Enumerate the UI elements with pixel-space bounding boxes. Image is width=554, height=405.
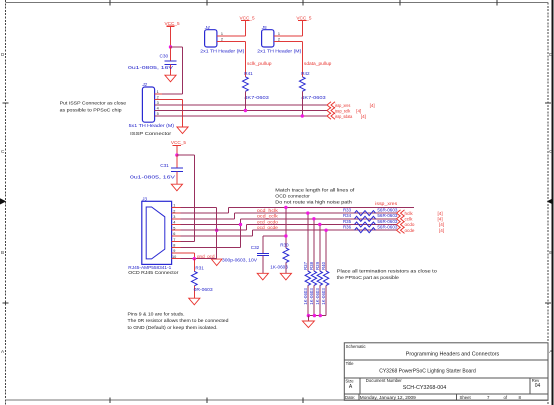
svg-text:sclk_pullup: sclk_pullup bbox=[247, 61, 272, 66]
svg-text:2: 2 bbox=[221, 38, 223, 42]
svg-text:1K-0603: 1K-0603 bbox=[270, 265, 288, 270]
wire termination gnd bus bbox=[308, 315, 326, 317]
svg-text:300p-0603, 10V: 300p-0603, 10V bbox=[222, 258, 258, 263]
node pin8 riser junction bbox=[239, 223, 242, 226]
wire row ocd_ocde bbox=[253, 229, 397, 231]
resistor R37 1K-0603 (termination) bbox=[303, 213, 311, 316]
ground (termination) bbox=[302, 321, 314, 328]
svg-text:Place all termination resistor: Place all termination resistors as close… bbox=[337, 269, 437, 274]
power symbol VCC_5 (C30 node) bbox=[165, 21, 181, 47]
ground (OCD gnd, below V2) bbox=[211, 259, 222, 265]
wire J3 pin6 jog bbox=[181, 230, 253, 236]
svg-text:B: B bbox=[1, 250, 4, 255]
svg-text:R38: R38 bbox=[309, 261, 314, 270]
resistor R34 56R-0603 bbox=[343, 213, 398, 221]
svg-text:Title: Title bbox=[346, 361, 355, 366]
svg-text:0u1-0805, 16V: 0u1-0805, 16V bbox=[128, 65, 174, 70]
svg-text:ocd_ocdo: ocd_ocdo bbox=[257, 219, 279, 224]
svg-text:SCH-CY3268-004: SCH-CY3268-004 bbox=[403, 385, 447, 391]
resistor R30 1K-0603 bbox=[270, 242, 289, 273]
svg-text:issp_sdata: issp_sdata bbox=[335, 114, 353, 119]
svg-text:A: A bbox=[1, 349, 5, 354]
wire R30 riser bbox=[285, 207, 287, 248]
svg-text:R37: R37 bbox=[303, 261, 308, 270]
svg-text:sdata_pullup: sdata_pullup bbox=[304, 61, 332, 66]
svg-text:issp_sclk: issp_sclk bbox=[335, 108, 351, 113]
wire row ocd_hclk bbox=[234, 212, 396, 214]
wire gnd_ocd (pin10) bbox=[181, 258, 217, 260]
wire R42 to issp_sdata bbox=[301, 91, 303, 116]
svg-text:Match trace length for all lin: Match trace length for all lines of bbox=[275, 188, 355, 193]
wire J3 pin1 to gnd drop V2 bbox=[181, 206, 217, 208]
svg-text:OCD connector: OCD connector bbox=[275, 194, 310, 199]
wire J4 pin1 to VCC bbox=[217, 35, 246, 37]
svg-text:[4]: [4] bbox=[356, 108, 361, 113]
wire gnd bus drop bbox=[307, 316, 309, 321]
port issp_sclk bbox=[327, 107, 361, 113]
wire issp_xres bbox=[155, 104, 327, 106]
svg-text:[4]: [4] bbox=[439, 222, 444, 227]
connector J4 2x1 TH Header bbox=[204, 25, 223, 47]
svg-text:Size: Size bbox=[345, 379, 354, 384]
svg-text:7: 7 bbox=[487, 395, 490, 400]
svg-text:Pins 9 & 10 are for studs.: Pins 9 & 10 are for studs. bbox=[128, 312, 185, 317]
capacitor C31 bbox=[130, 155, 183, 184]
svg-text:R42: R42 bbox=[301, 71, 310, 76]
svg-text:The 0R resistor allows them to: The 0R resistor allows them to be connec… bbox=[128, 318, 229, 323]
resistor R31 0R-0603 bbox=[191, 259, 213, 299]
ground (below C30) bbox=[165, 75, 176, 82]
svg-text:R36: R36 bbox=[343, 225, 352, 230]
svg-text:[4]: [4] bbox=[439, 228, 444, 233]
svg-text:VCC_5: VCC_5 bbox=[171, 140, 187, 145]
svg-text:issp_xres: issp_xres bbox=[375, 201, 398, 206]
port cclk bbox=[397, 216, 443, 222]
wire J3 pin5 jog bbox=[181, 225, 247, 231]
ground (below R30) bbox=[280, 273, 291, 280]
resistor R36 56R-0603 bbox=[343, 225, 398, 233]
svg-text:4K7-0603: 4K7-0603 bbox=[301, 95, 326, 100]
port ocde bbox=[397, 227, 445, 233]
svg-text:R33: R33 bbox=[343, 207, 352, 212]
connector J3 RJ45 bbox=[141, 197, 176, 265]
svg-text:Document Number: Document Number bbox=[366, 378, 403, 383]
svg-text:VCC_5: VCC_5 bbox=[240, 15, 256, 20]
svg-text:[4]: [4] bbox=[370, 103, 375, 108]
svg-text:the PPSoC part as possible: the PPSoC part as possible bbox=[337, 275, 399, 280]
svg-text:Date:: Date: bbox=[345, 395, 355, 400]
svg-text:[4]: [4] bbox=[438, 211, 443, 216]
wire VCC to J3 pin7 (V1 bottom) bbox=[181, 241, 195, 243]
port hclk bbox=[397, 210, 443, 216]
resistor R41 4K7-0603 bbox=[242, 71, 269, 100]
svg-text:Monday, January 12, 2009: Monday, January 12, 2009 bbox=[360, 395, 417, 400]
svg-text:2: 2 bbox=[278, 38, 280, 42]
svg-text:gnd_ocd: gnd_ocd bbox=[197, 254, 215, 259]
wire row ocd_cclk bbox=[241, 218, 397, 220]
svg-text:to GND (Default) or keep them: to GND (Default) or keep them isolated. bbox=[128, 325, 218, 330]
svg-text:ISSP Connector: ISSP Connector bbox=[130, 131, 172, 136]
wire J3 pin4 jog bbox=[181, 219, 241, 225]
svg-text:C31: C31 bbox=[160, 163, 169, 168]
svg-text:Put ISSP Connector as close: Put ISSP Connector as close bbox=[60, 101, 127, 106]
resistor R33 56R-0603 bbox=[343, 207, 398, 215]
svg-text:[4]: [4] bbox=[361, 114, 366, 119]
node VCC_5/C30 junction bbox=[169, 45, 172, 48]
wire row ocd_ocdo bbox=[247, 224, 397, 226]
resistor R40 1K-0603 (termination) bbox=[321, 230, 329, 315]
svg-text:Programming Headers and Connec: Programming Headers and Connectors bbox=[406, 351, 500, 357]
wire row issp_xres bbox=[228, 206, 414, 208]
svg-text:56R-0603: 56R-0603 bbox=[377, 225, 398, 230]
svg-text:ocd_ocde: ocd_ocde bbox=[257, 225, 279, 230]
resistor R39 1K-0603 (termination) bbox=[315, 225, 323, 316]
svg-text:OCD RJ45 Connector: OCD RJ45 Connector bbox=[128, 270, 179, 275]
svg-text:56R-0603: 56R-0603 bbox=[377, 207, 398, 212]
node VCC_5/C31 junction bbox=[175, 153, 178, 156]
svg-text:Sheet: Sheet bbox=[460, 395, 472, 400]
wire VCC node to J2 pin1 drop bbox=[171, 47, 183, 94]
svg-text:as possible to PPSoC chip: as possible to PPSoC chip bbox=[60, 107, 122, 112]
wire J3 pin2 jog bbox=[181, 207, 229, 213]
svg-text:1K-0603: 1K-0603 bbox=[321, 288, 326, 305]
ground (below R31) bbox=[189, 298, 200, 305]
port issp_sdata bbox=[327, 113, 366, 119]
wire VCC node to J3 pin7 drop (V1) bbox=[177, 155, 194, 242]
svg-text:of: of bbox=[504, 395, 508, 400]
svg-text:1: 1 bbox=[221, 32, 223, 36]
wire issp_sclk bbox=[155, 110, 327, 112]
wire J5 pin1 to VCC bbox=[274, 35, 302, 37]
note: Put ISSP Connector as close bbox=[60, 101, 127, 113]
svg-text:0u1-0805, 16V: 0u1-0805, 16V bbox=[130, 175, 176, 180]
wire R41 to issp_sclk bbox=[244, 91, 246, 110]
svg-text:04: 04 bbox=[535, 383, 541, 389]
svg-text:R30: R30 bbox=[280, 242, 289, 247]
wire J3 pin8 riser bbox=[181, 225, 241, 248]
svg-text:8: 8 bbox=[519, 395, 522, 400]
wire J2 pin2 to ground bbox=[155, 99, 183, 127]
wire J2 pin1 to VCC node bbox=[155, 93, 183, 95]
ground (below J2 pin2) bbox=[177, 127, 188, 134]
title block bbox=[344, 343, 548, 401]
connector J5 2x1 TH Header bbox=[261, 25, 280, 47]
svg-text:[4]: [4] bbox=[438, 217, 443, 222]
svg-text:A: A bbox=[349, 384, 353, 390]
resistor R42 4K7-0603 bbox=[299, 71, 326, 100]
node R41/issp_sclk junction bbox=[244, 109, 247, 112]
svg-text:CY3268 PowerPSoC Lighting Star: CY3268 PowerPSoC Lighting Starter Board bbox=[379, 369, 476, 375]
node gnd_ocd junction bbox=[193, 257, 196, 260]
svg-text:R40: R40 bbox=[321, 261, 326, 270]
svg-text:C30: C30 bbox=[160, 54, 169, 59]
svg-text:1K-0603: 1K-0603 bbox=[303, 288, 308, 305]
wire J3 pin3 jog bbox=[181, 213, 235, 219]
node R37 tap junction bbox=[306, 211, 309, 214]
node gnd bus junctions bbox=[307, 314, 322, 317]
node R39 tap junction bbox=[318, 223, 321, 226]
wire J5 pin2 to R42 bbox=[274, 42, 302, 77]
power symbol VCC_5 (J5) bbox=[296, 15, 312, 36]
svg-text:ocde: ocde bbox=[405, 228, 415, 233]
ground (below C31) bbox=[171, 184, 182, 191]
svg-text:cclk: cclk bbox=[405, 217, 414, 222]
svg-text:56R-0603: 56R-0603 bbox=[377, 219, 398, 224]
resistor R38 1K-0603 (termination) bbox=[309, 219, 317, 316]
power symbol VCC_5 (J4) bbox=[240, 15, 256, 36]
node V2/pin5 junction bbox=[215, 229, 218, 232]
note: pins 9 and 10 bbox=[128, 312, 229, 330]
capacitor C30 bbox=[128, 47, 177, 75]
svg-text:2x1 TH Header (M): 2x1 TH Header (M) bbox=[200, 48, 245, 53]
svg-text:VCC_5: VCC_5 bbox=[296, 15, 312, 20]
note: place termination resistors bbox=[337, 269, 437, 281]
svg-text:1K-0603: 1K-0603 bbox=[309, 288, 314, 305]
svg-text:R39: R39 bbox=[315, 261, 320, 270]
svg-text:C: C bbox=[1, 149, 5, 154]
svg-text:5x1 TH Header (M): 5x1 TH Header (M) bbox=[129, 123, 175, 128]
svg-text:VCC_5: VCC_5 bbox=[165, 21, 181, 26]
svg-text:1K-0603: 1K-0603 bbox=[315, 288, 320, 305]
svg-text:ocd_hclk: ocd_hclk bbox=[257, 208, 279, 213]
wire J4 pin2 to R41 bbox=[217, 42, 246, 77]
ground (below C32) bbox=[257, 273, 268, 280]
node C32/R30 junction bbox=[284, 234, 287, 237]
svg-text:hclk: hclk bbox=[405, 211, 414, 216]
svg-text:Do not route via high noise pa: Do not route via high noise path bbox=[275, 200, 352, 205]
port ocdo bbox=[397, 221, 445, 227]
capacitor C32 300p bbox=[222, 236, 269, 273]
connector J2 5x1 TH Header bbox=[141, 82, 159, 122]
svg-text:4K7-0603: 4K7-0603 bbox=[244, 95, 269, 100]
node R40 tap junction bbox=[324, 229, 327, 232]
svg-text:ocd_cclk: ocd_cclk bbox=[257, 214, 279, 219]
svg-text:Schematic: Schematic bbox=[346, 344, 367, 349]
svg-text:56R-0603: 56R-0603 bbox=[377, 213, 398, 218]
node R42/issp_sdata junction bbox=[301, 114, 304, 117]
svg-text:0R-0603: 0R-0603 bbox=[194, 287, 213, 292]
svg-text:R31: R31 bbox=[195, 265, 204, 270]
wire C32 tap bbox=[263, 235, 286, 237]
svg-text:1: 1 bbox=[278, 32, 280, 36]
wire J3 pin stubs bbox=[172, 207, 181, 258]
svg-text:R35: R35 bbox=[343, 219, 352, 224]
svg-text:R41: R41 bbox=[244, 71, 253, 76]
port issp_xres bbox=[327, 102, 375, 108]
svg-text:C32: C32 bbox=[251, 245, 260, 250]
svg-text:2x1 TH Header (M): 2x1 TH Header (M) bbox=[257, 48, 302, 53]
power symbol VCC_5 (C31 node) bbox=[171, 140, 187, 155]
svg-text:B: B bbox=[549, 250, 552, 255]
svg-text:issp_xres: issp_xres bbox=[335, 103, 351, 108]
wire gnd drop V2 bbox=[216, 207, 218, 258]
node R38 tap junction bbox=[312, 217, 315, 220]
wire J3 pin9 down to pin10 bbox=[181, 253, 195, 259]
node R30/issp_xres junction bbox=[284, 206, 287, 209]
wire issp_sdata bbox=[155, 115, 327, 117]
svg-text:ocdo: ocdo bbox=[405, 222, 415, 227]
resistor R35 56R-0603 bbox=[343, 219, 398, 227]
svg-text:D: D bbox=[1, 52, 5, 57]
svg-text:R34: R34 bbox=[343, 213, 352, 218]
note: match trace length bbox=[275, 188, 355, 205]
